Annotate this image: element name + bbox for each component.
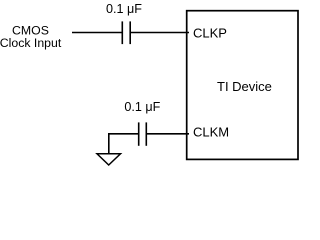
wire: capacitor C2 to CLKM pin: [146, 133, 189, 135]
wire: corner to capacitor C2: [108, 133, 139, 135]
label CMOS Clock Input: [0, 23, 62, 50]
svg-text:Clock Input: Clock Input: [0, 36, 62, 50]
capacitor C1 0.1uF (top): [122, 21, 130, 44]
capacitor C2 0.1uF (bottom): [139, 122, 147, 145]
pin CLKM label: [193, 125, 229, 140]
pin CLKP label: [193, 25, 227, 40]
svg-text:CLKM: CLKM: [193, 125, 229, 140]
label TI Device: [217, 79, 272, 94]
wire: ground riser to corner: [108, 134, 110, 154]
wire: capacitor C1 to CLKP pin: [130, 32, 189, 34]
svg-text:0.1 μF: 0.1 μF: [124, 100, 160, 114]
value label 0.1 uF (bottom): [124, 100, 160, 114]
ground symbol: [97, 154, 121, 165]
svg-text:TI Device: TI Device: [217, 79, 272, 94]
svg-text:CLKP: CLKP: [193, 25, 227, 40]
TI Device box U1: [187, 11, 298, 160]
svg-text:0.1 μF: 0.1 μF: [106, 2, 142, 16]
value label 0.1 uF (top): [106, 2, 142, 16]
wire: CMOS input to capacitor C1: [72, 32, 122, 34]
